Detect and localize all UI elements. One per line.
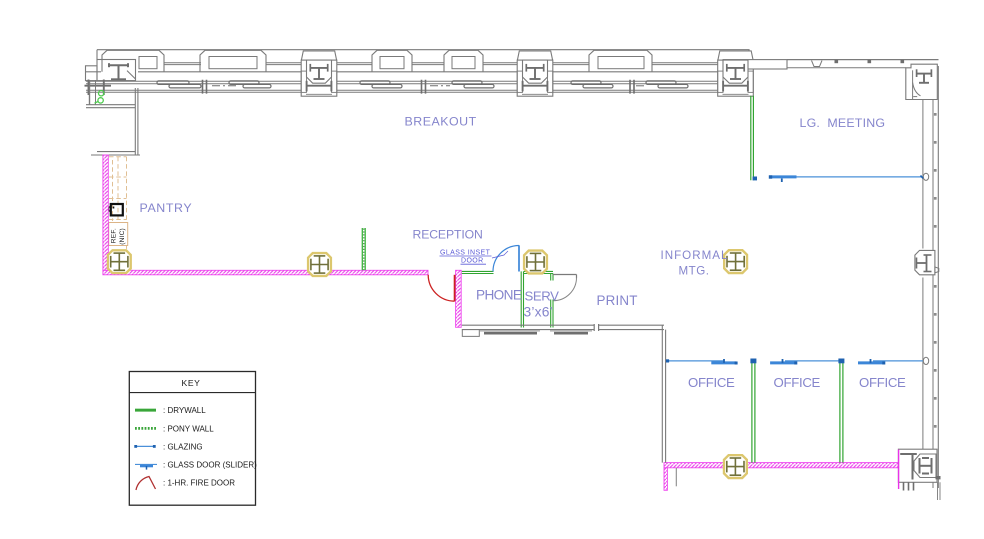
svg-text:: GLAZING: : GLAZING: [163, 442, 203, 451]
glazing junction circle at LG meeting: [923, 173, 928, 180]
drywall serv right wall green lower: [551, 300, 553, 328]
serv door arc gray: [553, 278, 576, 301]
window slider panels bay1: [157, 80, 271, 94]
svg-text:BREAKOUT: BREAKOUT: [405, 114, 477, 128]
drywall serv top green: [524, 271, 553, 273]
svg-text:: DRYWALL: : DRYWALL: [163, 406, 206, 415]
REF (NIC) label box: [109, 223, 128, 246]
corridor wall gray vertical double: [662, 325, 665, 462]
glass cap office wall A: [750, 359, 756, 364]
ticks below bottom-right column: [904, 482, 914, 490]
parapet bump B2: [200, 50, 266, 72]
svg-text:DOOR: DOOR: [461, 258, 484, 265]
window clip marks on LG top wall: [835, 60, 839, 63]
wire right wall inner face lower: [922, 278, 924, 450]
drywall phone top green: [462, 271, 494, 273]
column C7 bottom-right corner: [898, 449, 940, 500]
svg-text:SERV: SERV: [525, 288, 560, 303]
fire wall reception stub vertical hatched: [456, 270, 462, 327]
svg-text:OFFICE: OFFICE: [774, 375, 821, 390]
glass door slider office 1: [711, 361, 736, 364]
corridor wall gray horizontal double: [462, 325, 594, 329]
legend glass door swatch: [135, 463, 157, 465]
sill counter 1: [480, 330, 540, 332]
parapet bump B5: [444, 50, 483, 72]
svg-text:PRINT: PRINT: [597, 293, 638, 308]
legend pony wall swatch: [135, 427, 156, 430]
legend drywall swatch: [135, 409, 156, 411]
svg-text:3’x6’: 3’x6’: [524, 304, 553, 319]
column C5 top-right corner: [906, 64, 938, 99]
glass cap office wall B: [838, 359, 844, 364]
wire right wall inner face upper: [922, 100, 924, 249]
wire right exterior wall outer double line: [932, 100, 934, 489]
legend KEY box: [129, 372, 255, 506]
svg-text:MTG.: MTG.: [679, 264, 710, 277]
serv door leaf gray: [553, 275, 577, 279]
tick right of bottom-right column: [936, 476, 941, 479]
column C1 top-left: [86, 60, 136, 81]
svg-text:: 1-HR. FIRE DOOR: : 1-HR. FIRE DOOR: [163, 478, 235, 487]
legend glazing swatch: [136, 445, 155, 447]
glass door slider office 2: [770, 361, 796, 364]
niche below corridor wall: [462, 330, 479, 337]
glass door slider office 3: [858, 361, 884, 364]
column P2 reception wall octagon: [308, 253, 331, 276]
svg-text:LG. MEETING: LG. MEETING: [800, 116, 886, 130]
svg-text:OFFICE: OFFICE: [859, 375, 906, 390]
svg-text:KEY: KEY: [182, 378, 201, 388]
pantry appliance icon: [109, 204, 123, 215]
fire wall reception horizontal hatched: [103, 270, 428, 275]
wire LG meeting top wall double line: [787, 59, 939, 61]
window slider panels bay2: [360, 80, 494, 94]
svg-text:: PONY WALL: : PONY WALL: [163, 424, 214, 433]
wire left wall stub: [89, 80, 91, 105]
svg-text:PANTRY: PANTRY: [140, 201, 193, 215]
glass door slider LG meeting: [769, 175, 797, 178]
glazing LG meeting blue: [797, 176, 923, 178]
wire parapet drop left: [96, 50, 98, 60]
column C3 top: [517, 51, 553, 96]
column P4 informal mtg octagon: [724, 250, 747, 273]
fire wall office bottom hatched: [664, 463, 898, 468]
fire wall line at bottom-right column: [898, 450, 900, 490]
fire wall left vertical hatched: [103, 155, 108, 270]
glass inset door blue arc: [493, 246, 519, 272]
fire door 1hr red: [454, 275, 456, 301]
column P5 office wall octagon: [724, 455, 747, 478]
stub gray below office wall: [675, 468, 677, 486]
window band lines: [86, 81, 718, 92]
column P1 pantry corner octagon: [108, 250, 131, 273]
svg-text:OFFICE: OFFICE: [688, 375, 735, 390]
drywall phone-serv divider green: [521, 271, 523, 327]
corridor wall jambs: [594, 324, 598, 331]
wire top parapet line: [97, 50, 749, 60]
svg-text:INFORMAL: INFORMAL: [661, 249, 729, 262]
wall base line segments: [86, 71, 718, 73]
pony wall green dashed: [362, 228, 365, 270]
window slider panels bay3: [571, 80, 688, 94]
fire wall stub below office wall: [664, 468, 667, 491]
column C2 top: [301, 51, 337, 96]
column C6 right-mid: [915, 250, 935, 274]
drywall office divider B green: [840, 359, 843, 463]
svg-text:(NIC): (NIC): [119, 228, 126, 245]
svg-text:REF.: REF.: [110, 228, 117, 243]
glazing office front blue: [667, 360, 724, 362]
glass inset door blue leaf: [518, 245, 520, 271]
window head double line segments: [164, 63, 719, 65]
parapet bump B1: [102, 50, 164, 72]
glass door cap blue at LG wall: [753, 177, 757, 181]
pantry counter tan dashed: [109, 157, 127, 249]
svg-text:PHONE: PHONE: [476, 287, 522, 302]
drywall office divider A green: [752, 359, 755, 463]
svg-text:: GLASS DOOR (SLIDER): : GLASS DOOR (SLIDER): [163, 460, 257, 469]
svg-text:RECEPTION: RECEPTION: [413, 228, 483, 242]
column C4 top with wall stub: [718, 51, 787, 96]
parapet bump B4: [372, 50, 412, 72]
glazing junction circle at office: [923, 357, 928, 364]
keynote bubbles green: [99, 91, 104, 96]
drywall serv right wall green upper: [551, 274, 553, 281]
mullion ticks on right wall: [934, 113, 937, 428]
legend fire door swatch: [136, 477, 156, 491]
sill counter 2: [550, 330, 592, 332]
drywall LG meeting left wall green: [751, 96, 754, 180]
wire wall stub to LG meeting: [723, 60, 787, 69]
column P3 serv octagon: [524, 251, 547, 274]
parapet bump B7: [589, 50, 652, 72]
wire top-left shaft: [86, 88, 140, 155]
svg-text:GLASS INSET: GLASS INSET: [440, 250, 491, 257]
vent glyph on LG top wall: [812, 61, 823, 67]
